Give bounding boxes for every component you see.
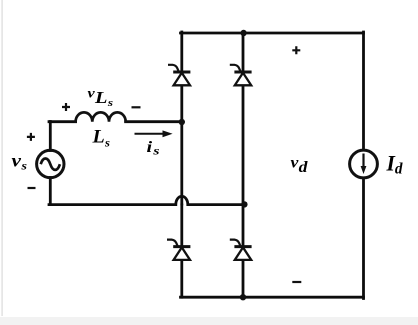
wire right leg bottom (thyristor 4 to bottom rail) <box>242 260 245 297</box>
scan page edge line (left) <box>1 0 3 316</box>
wire left leg lower (node A to thyristor 3) <box>180 205 183 245</box>
node (top rail / right leg junction) <box>240 30 246 36</box>
svg-text:vs: vs <box>12 151 28 173</box>
wire left leg bottom (thyristor 3 to bottom rail) <box>180 260 183 297</box>
label + (output top) <box>292 46 300 54</box>
wire inductor to node A junction <box>126 120 182 123</box>
thyristor T3 (bottom left) <box>167 240 190 260</box>
wire right leg upper (top rail to thyristor 2) <box>242 32 245 71</box>
wire source top vertical <box>49 122 52 151</box>
label - (source bottom) <box>28 187 36 189</box>
svg-text:Id: Id <box>386 151 403 178</box>
node B (right leg / source bottom junction) <box>241 201 247 207</box>
svg-text:vd: vd <box>291 155 308 177</box>
node A (left leg / source top junction) <box>179 119 185 125</box>
ac source vs <box>37 150 64 177</box>
wire right side (top rail to current source) <box>362 32 365 150</box>
wire top rail <box>181 32 364 35</box>
thyristor T1 (top left) <box>168 65 190 86</box>
node (bottom rail / right leg junction) <box>240 294 246 300</box>
wire source bottom horizontal with hop over left leg <box>49 196 243 204</box>
wire right leg mid (thyristor 2 to node B) <box>242 85 245 245</box>
current source Id <box>350 150 378 178</box>
svg-text:vLs: vLs <box>88 85 114 109</box>
wire source top horizontal to inductor <box>49 120 76 123</box>
arrow is (source current direction) <box>135 130 173 137</box>
wire left leg upper (top rail to thyristor 1) <box>180 32 183 71</box>
wire bottom rail <box>181 296 364 299</box>
wire source bottom vertical <box>49 178 52 205</box>
thyristor T4 (bottom right) <box>230 240 252 260</box>
scan gray band (bottom) <box>0 317 418 325</box>
thyristor T2 (top right) <box>230 65 252 86</box>
wire left leg mid (thyristor 1 to node A) <box>180 85 183 204</box>
svg-text:is: is <box>147 139 160 158</box>
inductor Ls <box>76 112 126 121</box>
wire right side (current source to bottom rail) <box>362 179 365 299</box>
label + (inductor left) <box>62 103 70 111</box>
svg-text:Ls: Ls <box>91 127 110 150</box>
label - (inductor right) <box>132 106 141 108</box>
label + (source top) <box>27 133 35 141</box>
label - (output bottom) <box>292 281 301 283</box>
